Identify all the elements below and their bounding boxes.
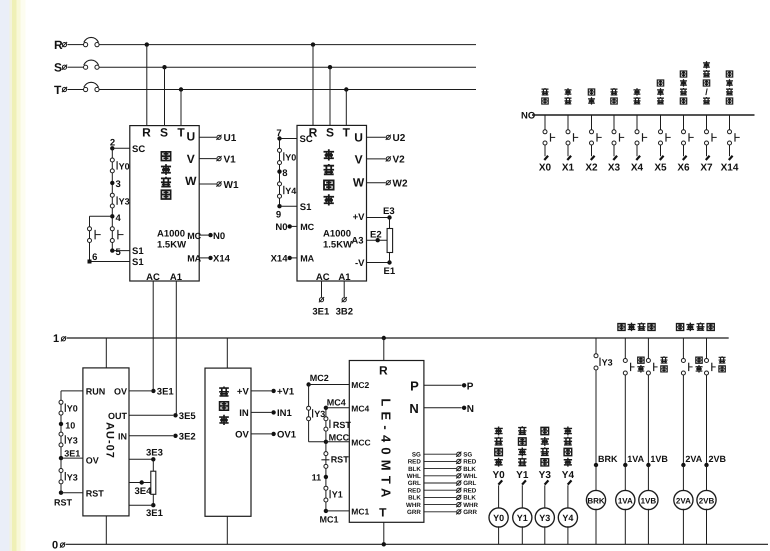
svg-text:RUN: RUN [86, 386, 106, 396]
svg-text:3E1: 3E1 [312, 307, 330, 318]
svg-text:WHL: WHL [463, 473, 477, 480]
svg-text:N: N [409, 401, 418, 416]
svg-text:U1: U1 [224, 133, 237, 144]
svg-text:R: R [142, 126, 151, 140]
svg-text:P: P [410, 378, 419, 393]
svg-text:R: R [379, 364, 388, 378]
svg-text:IN: IN [239, 408, 249, 419]
svg-text:MC1: MC1 [320, 515, 339, 525]
svg-text:Y3: Y3 [67, 435, 78, 445]
svg-text:Y0: Y0 [67, 404, 78, 414]
svg-text:IN: IN [118, 431, 127, 441]
svg-text:RST: RST [86, 488, 105, 498]
svg-text:X14: X14 [213, 254, 231, 265]
svg-text:U: U [354, 131, 363, 145]
svg-text:WHR: WHR [463, 502, 478, 509]
svg-text:X4: X4 [631, 163, 644, 174]
svg-text:WHR: WHR [406, 502, 421, 509]
svg-text:OV: OV [235, 429, 249, 440]
svg-text:Y4: Y4 [562, 470, 575, 481]
svg-text:2VA: 2VA [685, 454, 702, 464]
svg-text:MA: MA [300, 254, 314, 264]
svg-text:N: N [467, 404, 474, 415]
svg-text:BRK: BRK [598, 454, 618, 464]
svg-text:1VA: 1VA [618, 496, 633, 505]
svg-text:Y1: Y1 [516, 470, 529, 481]
svg-text:IN1: IN1 [277, 408, 293, 419]
svg-text:3E3: 3E3 [146, 448, 163, 459]
svg-text:BLK: BLK [408, 495, 421, 502]
svg-text:BLK: BLK [463, 495, 476, 502]
svg-text:Y3: Y3 [314, 409, 325, 419]
svg-text:2VB: 2VB [709, 454, 727, 464]
svg-text:X7: X7 [700, 163, 713, 174]
svg-text:11: 11 [312, 473, 322, 483]
svg-text:E2: E2 [370, 230, 382, 241]
svg-text:X3: X3 [608, 163, 621, 174]
svg-text:S: S [160, 126, 168, 140]
svg-text:RED: RED [463, 487, 477, 494]
svg-text:S: S [54, 61, 62, 75]
svg-text:1.5KW: 1.5KW [323, 240, 352, 251]
svg-text:3B2: 3B2 [336, 307, 353, 318]
svg-text:GRR: GRR [407, 509, 421, 516]
svg-text:W: W [353, 176, 365, 190]
svg-text:W1: W1 [224, 180, 239, 191]
svg-text:E3: E3 [383, 206, 395, 217]
svg-text:OV: OV [86, 455, 99, 465]
svg-text:MC2: MC2 [351, 380, 369, 390]
svg-text:SC: SC [300, 134, 313, 145]
svg-text:8: 8 [282, 168, 287, 179]
svg-text:RED: RED [408, 487, 422, 494]
svg-text:BRK: BRK [587, 496, 605, 505]
svg-text:3E4: 3E4 [135, 486, 153, 497]
svg-text:Y3: Y3 [539, 470, 552, 481]
svg-text:S: S [326, 126, 334, 140]
svg-text:GRR: GRR [463, 509, 477, 516]
svg-text:X1: X1 [562, 163, 575, 174]
svg-text:E1: E1 [384, 266, 396, 277]
svg-text:3E1: 3E1 [64, 448, 80, 458]
svg-text:X14: X14 [271, 254, 289, 265]
svg-text:Y3: Y3 [67, 473, 78, 483]
svg-text:RST: RST [54, 497, 73, 507]
svg-text:X5: X5 [654, 163, 667, 174]
svg-text:OV: OV [114, 386, 127, 396]
svg-text:SG: SG [412, 451, 421, 458]
svg-text:A1: A1 [338, 272, 351, 283]
svg-text:V1: V1 [224, 154, 237, 165]
svg-text:GRL: GRL [408, 480, 421, 487]
svg-text:Y1: Y1 [517, 513, 528, 523]
svg-text:Y0: Y0 [285, 152, 296, 162]
svg-text:A3: A3 [351, 236, 363, 247]
svg-text:N0: N0 [275, 222, 287, 233]
svg-text:3E5: 3E5 [179, 411, 197, 422]
svg-text:W2: W2 [393, 179, 408, 190]
svg-text:5: 5 [116, 247, 122, 258]
svg-text:S1: S1 [132, 246, 144, 257]
svg-text:R: R [54, 38, 63, 52]
svg-text:A1000: A1000 [323, 229, 351, 240]
svg-text:Y0: Y0 [492, 470, 505, 481]
svg-text:LE-40MTA: LE-40MTA [379, 398, 394, 502]
svg-text:Y1: Y1 [332, 489, 343, 499]
svg-text:MC: MC [300, 222, 314, 232]
svg-text:Y3: Y3 [602, 358, 613, 368]
svg-text:NO: NO [521, 111, 535, 122]
svg-text:+V: +V [353, 212, 366, 223]
svg-text:U2: U2 [393, 133, 406, 144]
svg-text:V2: V2 [393, 155, 406, 166]
svg-text:N0: N0 [213, 231, 225, 242]
svg-text:3: 3 [116, 179, 121, 190]
svg-text:Y4: Y4 [562, 513, 573, 523]
svg-text:Y3: Y3 [119, 196, 130, 206]
svg-text:MC2: MC2 [310, 373, 329, 383]
svg-text:RST: RST [331, 454, 350, 464]
svg-text:MA: MA [187, 254, 201, 264]
svg-text:U: U [186, 130, 195, 144]
svg-text:S1: S1 [300, 202, 312, 213]
svg-text:X6: X6 [677, 163, 690, 174]
svg-text:3E1: 3E1 [146, 508, 164, 519]
svg-text:Y0: Y0 [119, 161, 130, 171]
svg-text:OUT: OUT [108, 411, 128, 421]
svg-text:9: 9 [276, 210, 281, 221]
svg-text:OV1: OV1 [277, 430, 297, 441]
svg-text:MC4: MC4 [351, 404, 369, 414]
svg-text:SC: SC [132, 144, 145, 155]
svg-text:BLK: BLK [463, 466, 476, 473]
svg-text:T: T [54, 83, 62, 97]
svg-text:GRL: GRL [463, 480, 476, 487]
svg-text:MC4: MC4 [327, 397, 346, 407]
svg-text:X0: X0 [539, 163, 552, 174]
svg-text:+V1: +V1 [277, 387, 295, 398]
svg-text:SG: SG [463, 451, 472, 458]
svg-text:-V: -V [355, 258, 365, 269]
svg-text:MC1: MC1 [351, 507, 369, 517]
svg-text:X14: X14 [721, 163, 739, 174]
svg-text:+V: +V [237, 386, 250, 397]
svg-text:V: V [355, 153, 363, 167]
svg-text:T: T [343, 126, 351, 140]
svg-text:BLK: BLK [408, 466, 421, 473]
svg-text:W: W [185, 174, 197, 188]
svg-text:Y0: Y0 [493, 513, 504, 523]
svg-text:Y3: Y3 [539, 513, 550, 523]
svg-text:1VB: 1VB [641, 496, 657, 505]
svg-text:AU-07: AU-07 [104, 422, 116, 459]
svg-text:1: 1 [53, 333, 59, 345]
svg-text:X2: X2 [585, 163, 598, 174]
svg-text:RED: RED [408, 459, 422, 466]
svg-text:RED: RED [463, 459, 477, 466]
svg-text:3E2: 3E2 [179, 432, 196, 443]
svg-text:V: V [187, 152, 195, 166]
svg-text:1.5KW: 1.5KW [157, 240, 186, 251]
svg-text:S1: S1 [132, 257, 144, 268]
svg-text:P: P [467, 381, 474, 392]
svg-text:A1000: A1000 [157, 229, 185, 240]
svg-text:MCC: MCC [351, 438, 370, 448]
svg-text:4: 4 [116, 213, 122, 224]
svg-text:10: 10 [65, 420, 75, 430]
svg-text:0: 0 [52, 539, 58, 551]
svg-text:MCC: MCC [329, 432, 350, 442]
svg-text:2VA: 2VA [676, 496, 691, 505]
svg-text:WHL: WHL [407, 473, 421, 480]
svg-text:RST: RST [333, 420, 352, 430]
svg-text:T: T [379, 505, 387, 519]
svg-text:1VB: 1VB [650, 454, 668, 464]
svg-text:2VB: 2VB [699, 496, 715, 505]
svg-text:AC: AC [316, 272, 330, 283]
svg-text:MC: MC [187, 231, 201, 241]
svg-text:1VA: 1VA [627, 454, 644, 464]
svg-text:Y4: Y4 [285, 186, 296, 196]
svg-text:3E1: 3E1 [157, 387, 175, 398]
svg-text:T: T [177, 126, 185, 140]
